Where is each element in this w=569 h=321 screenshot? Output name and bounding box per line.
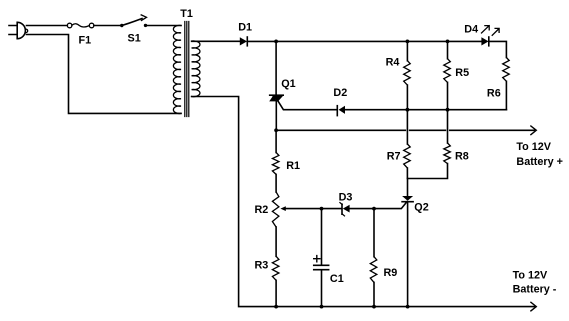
svg-text:D1: D1 <box>238 22 252 34</box>
svg-text:R3: R3 <box>255 259 269 271</box>
svg-text:R5: R5 <box>455 67 469 79</box>
svg-text:T1: T1 <box>180 8 193 20</box>
svg-text:R1: R1 <box>286 160 300 172</box>
svg-text:To 12V: To 12V <box>516 141 551 153</box>
svg-text:R9: R9 <box>384 267 398 279</box>
svg-text:To 12V: To 12V <box>513 270 548 282</box>
svg-text:D2: D2 <box>333 87 347 99</box>
svg-text:R7: R7 <box>387 150 401 162</box>
svg-text:Q2: Q2 <box>414 202 428 214</box>
svg-text:R4: R4 <box>386 57 400 69</box>
svg-text:R6: R6 <box>487 87 501 99</box>
svg-text:Battery -: Battery - <box>513 284 557 296</box>
svg-text:Battery +: Battery + <box>516 156 563 168</box>
svg-text:S1: S1 <box>128 33 141 45</box>
svg-text:D3: D3 <box>339 191 353 203</box>
svg-text:D4: D4 <box>464 24 478 36</box>
svg-text:F1: F1 <box>79 34 92 46</box>
svg-text:Q1: Q1 <box>281 78 295 90</box>
svg-text:R8: R8 <box>455 151 469 163</box>
svg-text:R2: R2 <box>255 204 269 216</box>
svg-text:C1: C1 <box>330 273 344 285</box>
